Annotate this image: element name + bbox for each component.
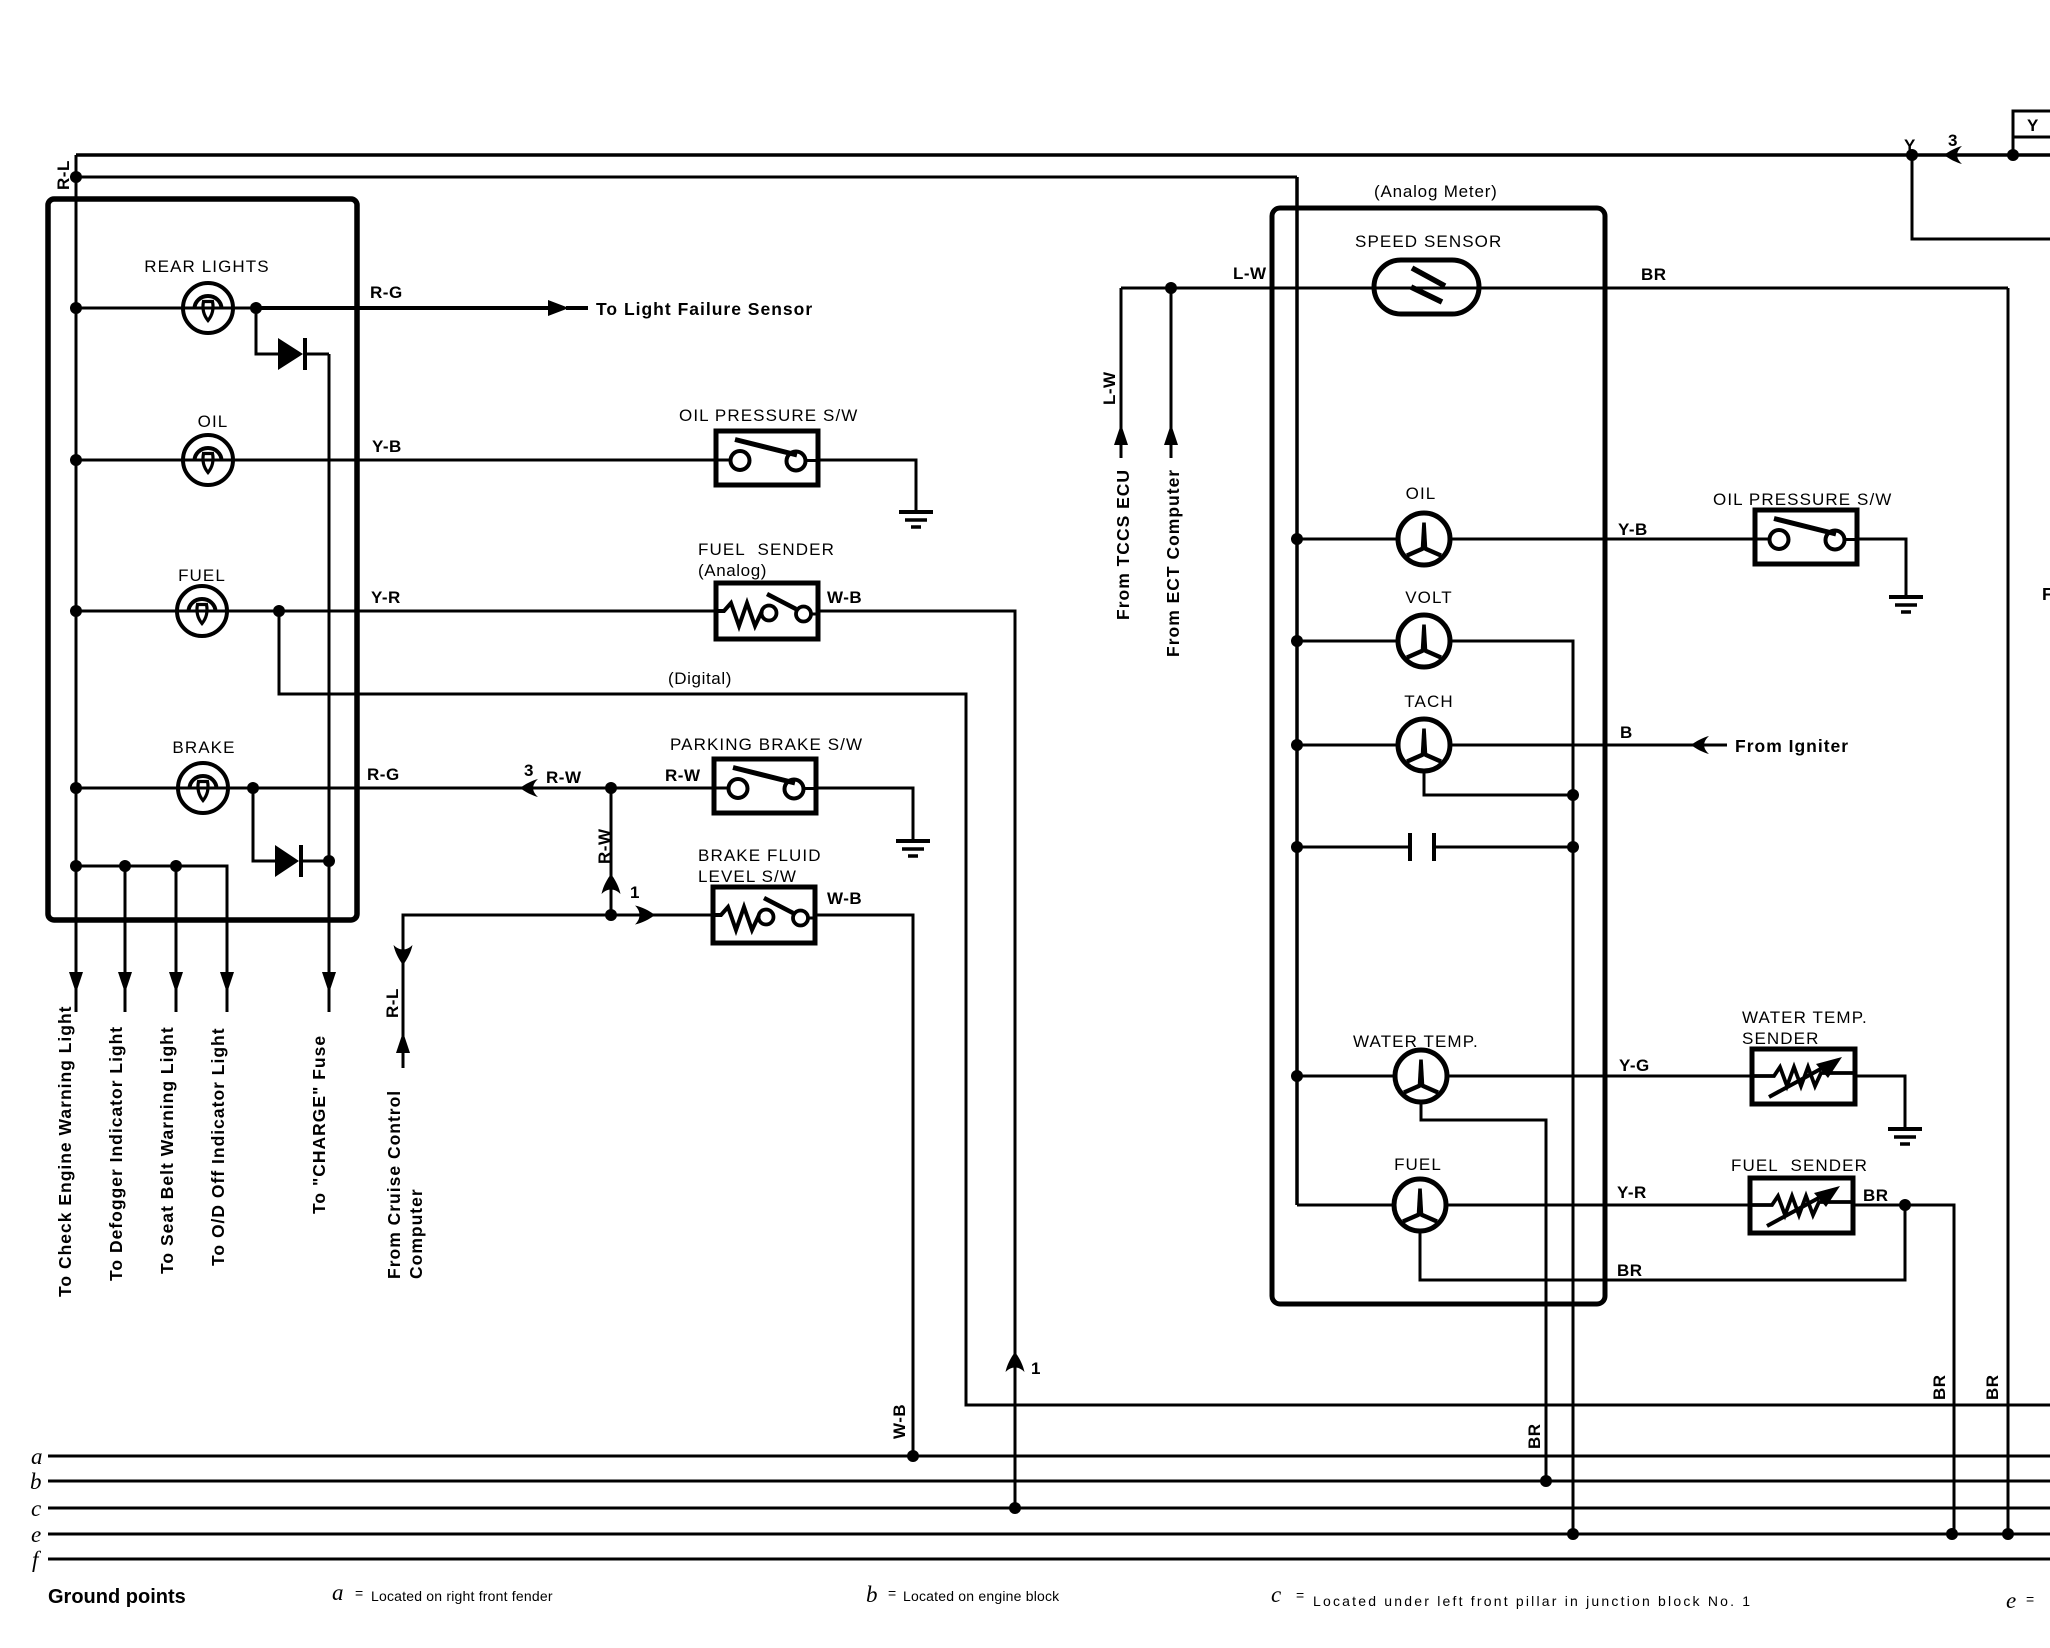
ground line f [48, 1558, 2050, 1561]
node W-B analog on c [1009, 1502, 1021, 1514]
svg-text:BR: BR [1641, 265, 1667, 284]
svg-text:Ground points: Ground points [48, 1586, 186, 1608]
svg-text:Y-B: Y-B [372, 437, 402, 456]
svg-text:Located on engine block: Located on engine block [903, 1588, 1060, 1604]
node tach-volt link [1567, 789, 1579, 801]
wire rear lights row [76, 307, 256, 310]
connector chevron right (to brake fluid) [635, 906, 655, 925]
wire W-B brake fluid to ground line a [815, 915, 913, 1456]
node bus bottom 2 [119, 860, 131, 872]
arrow left from igniter [1691, 736, 1709, 754]
connector chevron down (cruise) [394, 945, 413, 965]
wire Y branch [1912, 155, 2050, 239]
svg-text:Located under left front pilla: Located under left front pillar in junct… [1313, 1593, 1752, 1609]
ground water temp sender [1888, 1129, 1922, 1144]
svg-text:FUEL: FUEL [1394, 1155, 1442, 1174]
svg-text:c: c [1271, 1582, 1281, 1607]
svg-text:OIL: OIL [1406, 484, 1437, 503]
node Y junction [1906, 149, 1918, 161]
node bus tach [1291, 739, 1303, 751]
lamp FUEL [177, 586, 227, 636]
diode D1 [278, 338, 303, 370]
wire left bus vertical (R-L feed down through warning light box) [75, 155, 78, 1012]
wire tach bottom link [1424, 771, 1573, 795]
wire CHARGE vertical [328, 354, 331, 1012]
svg-text:LEVEL S/W: LEVEL S/W [698, 867, 797, 886]
diode D2 [275, 845, 299, 877]
node bus fuel [70, 605, 82, 617]
svg-text:Y-R: Y-R [1617, 1183, 1647, 1202]
svg-text:=: = [888, 1585, 896, 1601]
svg-text:From ECT Computer: From ECT Computer [1163, 469, 1183, 657]
node Y box junction [2007, 149, 2019, 161]
wire fuel row Y-R [76, 610, 716, 613]
svg-text:R-W: R-W [595, 828, 614, 864]
node rear lights out [250, 302, 262, 314]
svg-text:3: 3 [524, 761, 534, 780]
svg-text:REAR LIGHTS: REAR LIGHTS [144, 257, 269, 276]
svg-text:c: c [31, 1496, 41, 1521]
capacitor meter damper [1410, 833, 1434, 861]
wire drop seat belt [175, 866, 178, 1012]
svg-text:R-L: R-L [54, 160, 73, 190]
node bus volt [1291, 635, 1303, 647]
sender FUEL right [1750, 1178, 1853, 1233]
gauge OIL [1398, 513, 1450, 565]
ground line c [48, 1507, 2050, 1510]
svg-text:From TCCS ECU: From TCCS ECU [1113, 469, 1133, 620]
node bus oil [70, 454, 82, 466]
wire oil gauge row Y-B [1297, 538, 1755, 541]
node ECT junction [1165, 282, 1177, 294]
arrow up cruise [396, 1032, 410, 1053]
arrow up TCCS [1114, 424, 1128, 445]
svg-text:R-L: R-L [383, 988, 402, 1018]
node W-B on a [907, 1450, 919, 1462]
svg-text:R-G: R-G [370, 283, 403, 302]
lamp OIL [183, 435, 233, 485]
svg-text:e: e [2006, 1588, 2016, 1613]
svg-text:BRAKE: BRAKE [172, 738, 235, 757]
svg-text:From Cruise Control: From Cruise Control [384, 1090, 404, 1279]
svg-text:BR: BR [1525, 1423, 1544, 1449]
switch BRAKE FLUID LEVEL S/W [713, 887, 815, 943]
wire oil pressure sw right to ground [1857, 539, 1906, 595]
arrow down defogger [118, 972, 132, 993]
svg-text:=: = [1296, 1587, 1304, 1603]
analog meter box [1272, 208, 1605, 1304]
connector box Y [2013, 111, 2050, 137]
svg-text:Y-R: Y-R [371, 588, 401, 607]
arrow down o/d off [220, 972, 234, 993]
lamp BRAKE [178, 763, 228, 813]
node parking brake branch [605, 782, 617, 794]
svg-text:FUEL SENDER: FUEL SENDER [698, 540, 835, 559]
gauge WATER TEMP [1395, 1050, 1447, 1102]
node bus oil gauge [1291, 533, 1303, 545]
node brake fluid junction [605, 909, 617, 921]
svg-text:WATER TEMP.: WATER TEMP. [1742, 1008, 1868, 1027]
wire water temp sender to ground [1855, 1076, 1905, 1127]
ground oil pressure sw right [1889, 597, 1923, 612]
svg-text:=: = [355, 1585, 363, 1601]
svg-text:b: b [30, 1469, 42, 1494]
wire water temp row Y-G [1297, 1075, 1752, 1078]
arrow left connector 3 top [1944, 146, 1962, 164]
svg-text:R-W: R-W [665, 766, 701, 785]
svg-text:BR: BR [1983, 1374, 2002, 1400]
svg-text:F: F [2042, 584, 2050, 604]
svg-text:=: = [2026, 1591, 2034, 1607]
sender WATER TEMP [1752, 1049, 1855, 1104]
wire W-B analog to ground line c [818, 611, 1015, 1505]
wire oil row Y-B [76, 459, 717, 462]
wire fuel gauge bottom BR loop [1420, 1205, 1905, 1280]
node bus bottom 3 [170, 860, 182, 872]
wire R-G to light failure sensor [256, 306, 588, 310]
svg-text:a: a [332, 1580, 344, 1605]
svg-text:Computer: Computer [406, 1188, 426, 1279]
svg-text:FUEL SENDER: FUEL SENDER [1731, 1156, 1868, 1175]
svg-text:PARKING BRAKE S/W: PARKING BRAKE S/W [670, 735, 863, 754]
gauge TACH [1398, 719, 1450, 771]
wire water temp gauge bottom BR [1421, 1102, 1546, 1481]
arrow down check engine [69, 972, 83, 993]
wire diode D2 branch [253, 788, 329, 861]
svg-text:To "CHARGE" Fuse: To "CHARGE" Fuse [309, 1035, 329, 1214]
wire bottom bus in box [76, 866, 227, 1012]
svg-text:OIL PRESSURE S/W: OIL PRESSURE S/W [679, 406, 858, 425]
node bus water temp [1291, 1070, 1303, 1082]
ground line e [48, 1533, 2050, 1536]
arrow right R-G [548, 300, 569, 316]
svg-text:SENDER: SENDER [1742, 1029, 1819, 1048]
wire drop defogger [124, 866, 127, 1012]
wire top feed lower (to meter bus) [76, 176, 1297, 179]
wire fuel gauge row Y-R [1297, 1204, 1750, 1207]
wire volt gauge row [1297, 641, 1573, 1534]
svg-text:To Seat Belt Warning Light: To Seat Belt Warning Light [157, 1026, 177, 1274]
svg-text:3: 3 [1948, 131, 1958, 150]
gauge VOLT [1398, 615, 1450, 667]
wire parking brake to ground [816, 788, 913, 839]
wire from cruise control computer [403, 915, 713, 1068]
svg-text:To Light Failure Sensor: To Light Failure Sensor [596, 299, 813, 319]
node bus rear lights [70, 302, 82, 314]
svg-text:Y-B: Y-B [1618, 520, 1648, 539]
wire meter bus vertical [1295, 177, 1299, 1205]
wire R-W drop to brake fluid row [610, 788, 613, 915]
warning light box [48, 199, 357, 920]
wire capacitor row [1297, 846, 1573, 849]
svg-text:(Analog): (Analog) [698, 561, 767, 580]
node fuel sender BR on e [1946, 1528, 1958, 1540]
connector chevron 1 (W-B line) [1006, 1352, 1025, 1372]
node R-L junction [70, 171, 82, 183]
wire digital branch [279, 611, 2050, 1405]
svg-text:Y: Y [2027, 116, 2039, 135]
svg-text:BR: BR [1863, 1186, 1889, 1205]
svg-text:1: 1 [1031, 1359, 1041, 1378]
node volt line on e [1567, 1528, 1579, 1540]
node brake out [247, 782, 259, 794]
wire tach gauge row B [1297, 744, 1727, 747]
svg-text:From Igniter: From Igniter [1735, 736, 1849, 756]
arrow down seat belt [169, 972, 183, 993]
wire L-W / BR speed sensor row [1121, 288, 2008, 1534]
ground oil pressure sw [899, 512, 933, 527]
ground line a [48, 1455, 2050, 1458]
lamp REAR LIGHTS [183, 283, 233, 333]
svg-text:b: b [866, 1582, 878, 1607]
node charge junction [323, 855, 335, 867]
svg-text:Y-G: Y-G [1619, 1056, 1650, 1075]
svg-text:W-B: W-B [827, 588, 862, 607]
arrow down charge [322, 972, 336, 993]
svg-text:OIL: OIL [198, 412, 229, 431]
arrow up ECT [1164, 424, 1178, 445]
svg-text:FUEL: FUEL [178, 566, 226, 585]
svg-text:To O/D Off Indicator Light: To O/D Off Indicator Light [208, 1027, 228, 1266]
svg-text:W-B: W-B [890, 1404, 909, 1439]
svg-text:e: e [31, 1522, 41, 1547]
wire fuel sender out [1853, 1205, 1954, 1534]
svg-text:TACH: TACH [1404, 692, 1453, 711]
node fuel digital branch [273, 605, 285, 617]
svg-text:(Analog Meter): (Analog Meter) [1374, 182, 1498, 201]
svg-text:L-W: L-W [1100, 371, 1119, 405]
svg-text:BRAKE FLUID: BRAKE FLUID [698, 846, 822, 865]
node fuel sender BR [1899, 1199, 1911, 1211]
svg-text:a: a [31, 1444, 43, 1469]
wire diode D1 branch [256, 308, 329, 354]
svg-text:Located on right front fender: Located on right front fender [371, 1588, 553, 1604]
node speed sensor BR on e [2002, 1528, 2014, 1540]
wire from ECT computer [1170, 288, 1173, 458]
wire top feed upper [76, 153, 2050, 157]
arrow left connector 3 [520, 779, 538, 797]
node capacitor-volt link [1567, 841, 1579, 853]
sender FUEL SENDER analog [716, 583, 818, 639]
node BR water temp on b [1540, 1475, 1552, 1487]
svg-text:R-W: R-W [546, 768, 582, 787]
svg-text:SPEED SENSOR: SPEED SENSOR [1355, 232, 1502, 251]
ground line b [48, 1480, 2050, 1483]
svg-text:BR: BR [1617, 1261, 1643, 1280]
svg-text:To Defogger Indicator Light: To Defogger Indicator Light [106, 1026, 126, 1281]
svg-text:To Check Engine Warning Light: To Check Engine Warning Light [55, 1006, 75, 1298]
speed sensor symbol [1374, 260, 1479, 314]
connector chevron 1 (R-W line) [602, 874, 621, 894]
gauge FUEL [1394, 1179, 1446, 1231]
node bus capacitor [1291, 841, 1303, 853]
svg-text:B: B [1620, 723, 1633, 742]
wire Y box stub [2012, 137, 2015, 155]
svg-text:L-W: L-W [1233, 264, 1267, 283]
node bus brake [70, 782, 82, 794]
ground parking brake [896, 841, 930, 856]
svg-text:W-B: W-B [827, 889, 862, 908]
svg-text:VOLT: VOLT [1405, 588, 1453, 607]
wire brake row R-G / R-W [76, 787, 714, 790]
wire oil pressure sw to ground [818, 460, 916, 510]
svg-text:BR: BR [1930, 1374, 1949, 1400]
svg-text:R-G: R-G [367, 765, 400, 784]
svg-text:(Digital): (Digital) [668, 669, 732, 688]
svg-text:OIL PRESSURE S/W: OIL PRESSURE S/W [1713, 490, 1892, 509]
wire from TCCS ECU [1120, 288, 1123, 458]
svg-text:1: 1 [630, 883, 640, 902]
node bus bottom 1 [70, 860, 82, 872]
